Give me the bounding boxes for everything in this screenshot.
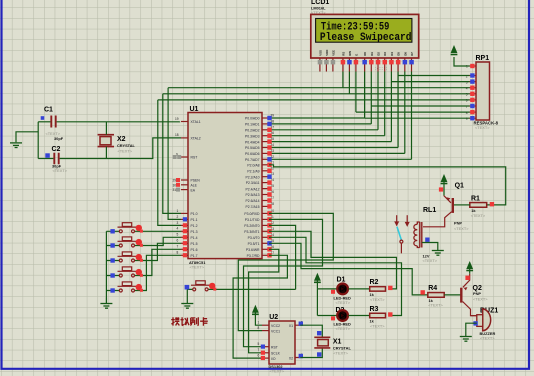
svg-text:1: 1 xyxy=(258,321,260,325)
buzzer BUZ1 xyxy=(471,307,499,340)
U1 pins P2 stubs xyxy=(262,165,269,207)
svg-text:P1.1: P1.1 xyxy=(191,218,198,222)
svg-text:D6: D6 xyxy=(403,52,407,56)
svg-text:VCC2: VCC2 xyxy=(271,324,280,328)
svg-text:P2.7/A15: P2.7/A15 xyxy=(246,205,260,209)
svg-text:D2: D2 xyxy=(377,52,381,56)
svg-text:D1: D1 xyxy=(337,276,346,283)
power arrow VCC for RP1 xyxy=(454,57,470,66)
resistor R1 xyxy=(470,196,494,218)
svg-text:6: 6 xyxy=(258,354,260,358)
wire D6 vertical xyxy=(404,72,406,154)
wire net P3.6 to U2 SCLK xyxy=(249,249,279,352)
wire net P2.0 to R1 xyxy=(269,165,506,205)
node C1 left marker xyxy=(41,116,45,120)
U1 pin RST (9) xyxy=(181,156,188,158)
svg-text:<TEXT>: <TEXT> xyxy=(118,149,133,154)
node C2 left marker xyxy=(45,153,50,158)
svg-text:5: 5 xyxy=(466,93,468,97)
svg-text:<TEXT>: <TEXT> xyxy=(53,168,68,173)
U1 P0 pin numbers 39-32 xyxy=(271,114,275,159)
svg-text:<TEXT>: <TEXT> xyxy=(370,297,385,302)
svg-text:31: 31 xyxy=(173,188,177,192)
svg-text:XTAL2: XTAL2 xyxy=(191,137,201,141)
LCD pin state markers xyxy=(318,60,414,71)
svg-text:19: 19 xyxy=(175,117,179,121)
wire P0.3 row xyxy=(269,135,385,137)
wire C1 right to XTAL1 xyxy=(57,121,180,123)
U2 right pin stubs xyxy=(295,325,300,357)
wire RW net vertical to P1.0 xyxy=(163,94,181,214)
svg-text:: · : : : : :: : · : : : : : xyxy=(375,67,387,71)
resistor R4 xyxy=(421,285,445,308)
svg-text:P2.2/A10: P2.2/A10 xyxy=(246,175,260,179)
wire R4 to Q2 base xyxy=(444,294,460,296)
svg-text:P2.5/A13: P2.5/A13 xyxy=(246,193,260,197)
wire C2 left xyxy=(38,158,53,160)
wire D5 vertical xyxy=(397,72,399,148)
svg-text:VDD: VDD xyxy=(325,50,329,56)
capacitor C2 xyxy=(52,146,68,173)
svg-text:P0.1/AD1: P0.1/AD1 xyxy=(245,123,260,127)
svg-text:1: 1 xyxy=(177,209,179,213)
svg-text:VSS: VSS xyxy=(318,50,322,56)
svg-text:P0.3/AD3: P0.3/AD3 xyxy=(245,134,260,138)
svg-text:<TEXT>: <TEXT> xyxy=(370,323,385,328)
wire E vertical xyxy=(355,72,357,113)
svg-text:Q1: Q1 xyxy=(455,182,464,189)
svg-text:6: 6 xyxy=(466,99,468,103)
svg-text:P3.5/T1: P3.5/T1 xyxy=(248,242,260,246)
svg-text:8: 8 xyxy=(177,251,179,255)
wire E net vertical to P1.2 xyxy=(158,100,181,225)
svg-text:<TEXT>: <TEXT> xyxy=(428,303,443,308)
svg-text:VCC1: VCC1 xyxy=(271,329,280,333)
svg-text:<TEXT>: <TEXT> xyxy=(333,350,348,355)
op U1 MCU AT89C51 xyxy=(188,106,262,269)
ground (swipe button) xyxy=(181,304,193,309)
wire net P3.1 to U2 RST xyxy=(244,219,323,346)
svg-text:3: 3 xyxy=(177,221,179,225)
transistor Q2 (PNP) xyxy=(461,274,488,316)
button SW2 xyxy=(106,237,181,248)
svg-text:P3.3/INT1: P3.3/INT1 xyxy=(244,230,259,234)
wire RP1 row1 xyxy=(398,75,469,77)
power arrow VCC (Q2 emitter) xyxy=(469,268,471,273)
wire RP1 row2 xyxy=(391,81,469,83)
svg-text:P2.4/A12: P2.4/A12 xyxy=(246,187,260,191)
U1 P3 pin state markers xyxy=(267,211,271,257)
svg-text:D1: D1 xyxy=(370,52,374,56)
resistor R2 xyxy=(370,279,393,302)
U1 P2 pin state markers xyxy=(267,163,271,209)
RP1 pins 2-9 stubs xyxy=(470,76,477,119)
wire RP1 row3 long (RS net) xyxy=(168,87,469,89)
wire C1 left xyxy=(38,121,50,123)
LED D2 xyxy=(331,307,351,331)
svg-text:P3.0/RXD: P3.0/RXD xyxy=(244,212,260,216)
svg-text:4: 4 xyxy=(177,227,179,231)
U2 pin name labels xyxy=(271,324,281,361)
U1 P3 pin numbers 10-17 xyxy=(271,209,275,255)
wire U2 X1 top xyxy=(300,325,322,337)
wire D1 to R2 xyxy=(348,288,370,290)
svg-text:D5: D5 xyxy=(397,52,401,56)
wire D1 vertical xyxy=(370,72,372,124)
svg-text:SCLK: SCLK xyxy=(271,352,281,356)
wire RP1 row5 long (E net) xyxy=(158,99,470,101)
svg-text:P2.3/A11: P2.3/A11 xyxy=(246,181,260,185)
relay moving contact (lever) xyxy=(397,227,401,240)
resistor pack RP1 xyxy=(474,55,499,130)
U1 pin XTAL2 (18) xyxy=(181,137,188,139)
svg-text:P3.4/T0: P3.4/T0 xyxy=(248,236,260,240)
svg-text:P3.6/WR: P3.6/WR xyxy=(246,248,260,252)
button SW5 xyxy=(106,255,181,292)
RP1 pin numbers 2-9 xyxy=(466,74,468,121)
svg-text:30: 30 xyxy=(173,183,177,187)
U1 right pin name labels xyxy=(244,117,260,258)
svg-text:PNP: PNP xyxy=(473,291,481,296)
U1 pins P0 stubs xyxy=(262,118,269,159)
svg-text:R4: R4 xyxy=(428,285,437,292)
wire RP1 row8 xyxy=(365,117,470,119)
LCD pin name columns (rotated) xyxy=(318,50,414,56)
svg-text:C2: C2 xyxy=(52,146,61,153)
wire C1-C2 vertical xyxy=(37,122,39,159)
capacitor C1 xyxy=(44,107,64,142)
svg-text:P1.4: P1.4 xyxy=(191,236,198,240)
wire X2 bottom stem xyxy=(105,147,107,159)
U1 pins P1.0-P1.7 stubs xyxy=(181,213,188,255)
svg-text:<TEXT>: <TEXT> xyxy=(454,226,469,231)
wire X2 top stem xyxy=(105,122,107,135)
svg-text:<TEXT>: <TEXT> xyxy=(471,213,486,218)
button SW6 (swipe card) xyxy=(185,281,296,291)
svg-text:X2: X2 xyxy=(289,356,293,360)
svg-text:D0: D0 xyxy=(363,52,367,56)
wire to ground (osc) xyxy=(16,132,38,143)
svg-text:<TEXT>: <TEXT> xyxy=(423,258,438,263)
svg-text:29: 29 xyxy=(173,179,177,183)
wire RP1 row6 xyxy=(371,105,469,107)
svg-text:P2.0/A8: P2.0/A8 xyxy=(247,164,259,168)
svg-text:P3.1/TXD: P3.1/TXD xyxy=(245,218,260,222)
wire P0.6 row xyxy=(269,152,405,154)
U1 P1 pin numbers 1-8 xyxy=(177,209,179,255)
ground (osc) xyxy=(10,143,22,148)
wire D1-D2 vertical xyxy=(316,289,318,316)
svg-text:P0.7/AD7: P0.7/AD7 xyxy=(245,158,260,162)
svg-text:PNP: PNP xyxy=(454,221,462,226)
svg-text:U2: U2 xyxy=(269,314,278,321)
power arrow VCC (U2) xyxy=(255,312,262,325)
crystal X1 xyxy=(314,337,351,355)
wire D2 anode row xyxy=(317,315,337,317)
svg-text:VEE: VEE xyxy=(331,50,335,56)
wire RP1 row4 long (RW net) xyxy=(163,93,470,95)
wire net P3.0 to U2 xyxy=(238,213,333,330)
wire RS vertical xyxy=(342,72,344,88)
svg-text:<TEXT>: <TEXT> xyxy=(336,326,351,331)
svg-text:XTAL1: XTAL1 xyxy=(191,120,201,124)
crystal X2 xyxy=(98,135,136,154)
svg-text:<TEXT>: <TEXT> xyxy=(190,264,205,269)
svg-text:R3: R3 xyxy=(370,306,379,313)
wire swipe net vertical to P3.2 xyxy=(269,225,296,289)
svg-text:P0.4/AD4: P0.4/AD4 xyxy=(245,140,260,144)
svg-text:P0.5/AD5: P0.5/AD5 xyxy=(245,146,260,150)
svg-text:RST: RST xyxy=(271,346,278,350)
wire R1 to Q1 base xyxy=(454,204,470,206)
svg-text:P1.0: P1.0 xyxy=(191,212,198,216)
relay contact terminal arrows xyxy=(394,215,410,227)
wire net P3.7 to U2 IO xyxy=(233,255,287,358)
wire RP1 row7 xyxy=(356,111,470,113)
wire D3 vertical xyxy=(384,72,386,136)
svg-text:5: 5 xyxy=(258,342,260,346)
svg-text:7: 7 xyxy=(258,348,260,352)
U2 left pin numbers xyxy=(258,321,260,358)
svg-text:5: 5 xyxy=(177,233,179,237)
svg-text:6: 6 xyxy=(177,239,179,243)
button bank common vertical wire xyxy=(105,231,107,297)
wire D1 anode row xyxy=(317,288,337,290)
U1 pin EA (31) xyxy=(181,189,188,191)
power arrow VCC (LED anodes) xyxy=(316,280,318,289)
svg-text:CRYSTAL: CRYSTAL xyxy=(117,143,136,148)
transistor Q1 (PNP) xyxy=(423,182,469,231)
svg-text:<TEXT>: <TEXT> xyxy=(270,369,285,374)
ground (BUZ1) xyxy=(460,337,472,342)
label 模拟刷卡 (drawn strokes) xyxy=(171,317,208,325)
svg-text:2: 2 xyxy=(177,215,179,219)
wire net P3.4 to R3 xyxy=(269,237,402,315)
svg-text:I/O: I/O xyxy=(271,357,276,361)
resistor R3 xyxy=(370,306,393,328)
svg-text:PSEN: PSEN xyxy=(191,179,201,183)
svg-text:D4: D4 xyxy=(390,52,394,56)
svg-text:P3.7/RD: P3.7/RD xyxy=(247,254,260,258)
ground (relay) xyxy=(432,251,444,256)
ground (button bank) xyxy=(100,298,112,309)
svg-text:EA: EA xyxy=(191,188,196,192)
wire U2 X2 bottom xyxy=(300,348,322,358)
U1 pin XTAL1 (19) xyxy=(181,121,188,123)
svg-text:RP1: RP1 xyxy=(476,55,490,62)
svg-text:P1.6: P1.6 xyxy=(191,248,198,252)
svg-text:<TEXT>: <TEXT> xyxy=(475,125,490,130)
button SW3 xyxy=(106,243,181,262)
svg-text:X1: X1 xyxy=(289,324,293,328)
svg-text:P0.6/AD6: P0.6/AD6 xyxy=(245,152,260,156)
svg-text:P1.5: P1.5 xyxy=(191,242,198,246)
U1 P1 pin state markers xyxy=(183,217,187,257)
U1 P2 pin numbers 21-28 xyxy=(271,160,275,206)
svg-text:E: E xyxy=(354,54,358,56)
wire P0.1 row xyxy=(269,123,371,125)
LCD pins 1-14 stubs xyxy=(320,58,412,72)
wire D2 vertical xyxy=(377,72,379,130)
svg-text:P0.0/AD0: P0.0/AD0 xyxy=(245,117,260,121)
LCD1 display xyxy=(311,0,419,58)
svg-text:RW: RW xyxy=(348,51,352,56)
svg-text:Please Swipecard: Please Swipecard xyxy=(320,32,412,44)
wire P0.4 row xyxy=(269,141,391,143)
wire C2 right to XTAL2 corner xyxy=(60,138,181,159)
LED D1 xyxy=(331,276,351,305)
wire RS net vertical to P1.1 xyxy=(168,88,181,220)
svg-text:P1.7: P1.7 xyxy=(191,254,198,258)
svg-text:<TEXT>: <TEXT> xyxy=(480,336,495,341)
wire net P3.5 to R4 xyxy=(269,243,428,295)
power arrow VCC (Q1 emitter) xyxy=(443,181,445,195)
svg-text:P2.6/A14: P2.6/A14 xyxy=(246,199,260,203)
U2 left pin stubs xyxy=(262,325,269,358)
svg-text:D7: D7 xyxy=(410,52,414,56)
wire net P3.3 to R2 xyxy=(269,231,397,289)
wire P0.5 row xyxy=(269,147,398,149)
U2 left pin state markers xyxy=(261,345,265,349)
wire D7 vertical xyxy=(411,72,413,160)
svg-text:8: 8 xyxy=(258,326,260,330)
wire P0.2 row xyxy=(269,129,378,131)
wire D2 to R3 xyxy=(348,315,370,317)
svg-text:P0.2/AD2: P0.2/AD2 xyxy=(245,129,260,133)
U1 pin ALE (30) xyxy=(181,184,188,186)
svg-text:30pF: 30pF xyxy=(54,136,64,141)
svg-text:18: 18 xyxy=(175,133,179,137)
wire swipe button to ground xyxy=(186,289,188,303)
relay RL1 coil xyxy=(414,207,438,263)
button SW1 xyxy=(106,223,181,234)
wire BUZ1 bottom to ground xyxy=(466,323,477,336)
rtc U2 DS1302 xyxy=(269,314,296,374)
svg-text:R1: R1 xyxy=(471,196,480,203)
RP1 pin state markers xyxy=(470,73,474,120)
wire P0.7 row xyxy=(269,158,412,160)
U1 P0 pin state markers xyxy=(267,116,271,162)
svg-text:<TEXT>: <TEXT> xyxy=(336,300,351,305)
svg-text:RS: RS xyxy=(341,52,345,56)
svg-text:P3.2/INT0: P3.2/INT0 xyxy=(244,224,259,228)
svg-text:P1.2: P1.2 xyxy=(191,224,198,228)
svg-text:P2.1/A9: P2.1/A9 xyxy=(247,169,259,173)
svg-text:C1: C1 xyxy=(44,107,53,114)
svg-text:D3: D3 xyxy=(383,52,387,56)
wire relay coil bottom to ground xyxy=(422,243,438,251)
button SW4 xyxy=(106,249,181,277)
relay pole stem xyxy=(400,243,402,253)
svg-text:P1.3: P1.3 xyxy=(191,230,198,234)
wire P0.0 row xyxy=(269,117,365,119)
svg-text:<TEXT>: <TEXT> xyxy=(473,297,488,302)
wire RW vertical xyxy=(348,72,350,94)
svg-text:R2: R2 xyxy=(370,279,379,286)
U1 pins P3 stubs xyxy=(262,213,269,255)
svg-text:7: 7 xyxy=(177,245,179,249)
svg-text:ALE: ALE xyxy=(191,184,198,188)
svg-text:RL1: RL1 xyxy=(423,207,436,214)
wire D0 vertical xyxy=(364,72,366,119)
wire D4 vertical xyxy=(390,72,392,142)
RP1 pin 1 stub xyxy=(470,65,477,67)
svg-text:RST: RST xyxy=(191,156,198,160)
U1 left pin name labels xyxy=(191,120,201,258)
U1 pin PSEN (29) xyxy=(181,179,188,181)
svg-text:X2: X2 xyxy=(117,136,126,143)
